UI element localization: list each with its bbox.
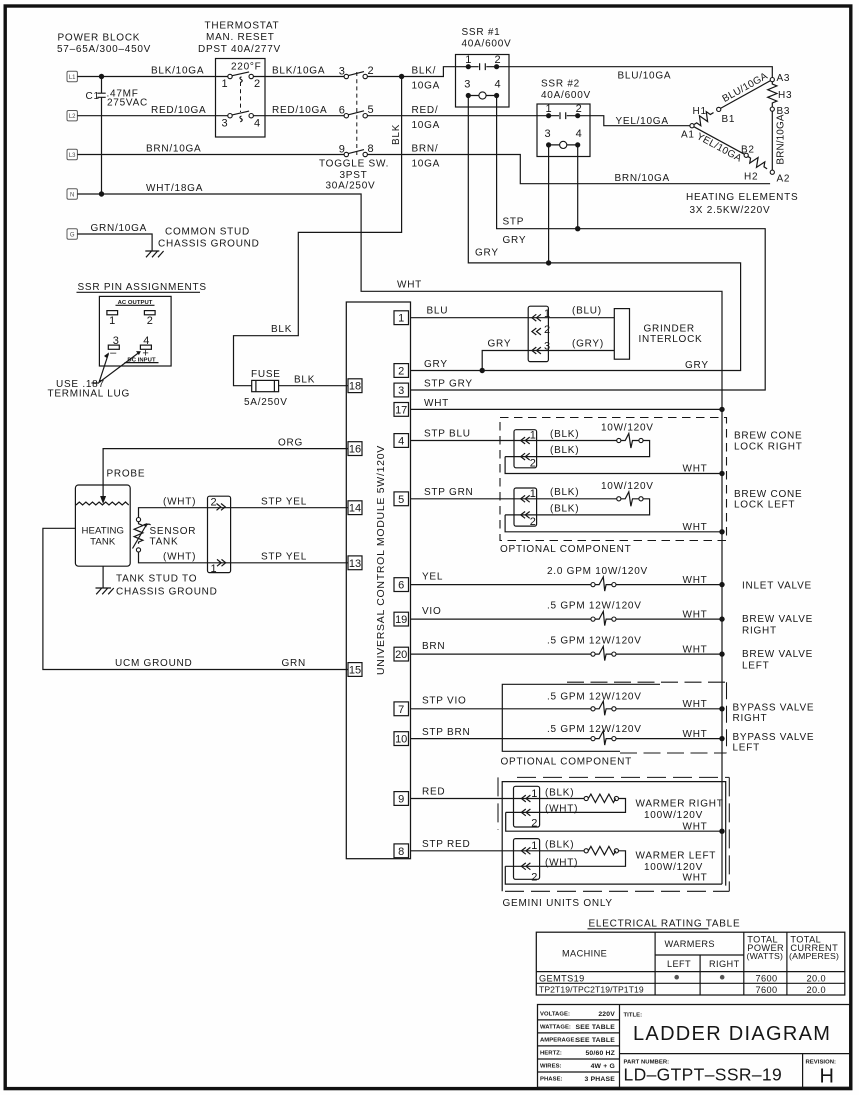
svg-text:HEATING ELEMENTS: HEATING ELEMENTS xyxy=(686,192,798,203)
svg-text:.5 GPM 12W/120V: .5 GPM 12W/120V xyxy=(547,601,642,612)
svg-text:WHT: WHT xyxy=(683,729,708,740)
junction dot brew right WHT xyxy=(719,471,724,476)
wire STP GRY net SSR1 pin4 to UCM-3 xyxy=(411,96,766,391)
node B3 xyxy=(770,107,774,111)
labels (BLK)(WHT) warmer right xyxy=(545,787,578,814)
bypass optional box solid part xyxy=(502,684,660,751)
warmer left resistor xyxy=(505,846,625,866)
labels (BLK)(WHT) warmer left xyxy=(545,840,578,869)
svg-text:GRY: GRY xyxy=(475,248,499,259)
SSR #1 pins 1-2 contact xyxy=(465,54,500,70)
node B1 xyxy=(717,107,721,111)
svg-text:6: 6 xyxy=(398,580,404,592)
svg-text:A1: A1 xyxy=(681,130,695,141)
resistor H1 A1-B1 xyxy=(691,109,716,129)
svg-text:B2: B2 xyxy=(741,145,755,156)
title block row HERTZ xyxy=(540,1050,615,1057)
wire WHT return brew right xyxy=(505,457,722,475)
UCM terminal 15 xyxy=(348,663,362,677)
brew cone left pin 2 xyxy=(521,512,536,528)
warmer right pin 1 xyxy=(521,788,537,802)
svg-text:REVISION:: REVISION: xyxy=(806,1059,837,1065)
svg-text:POWER BLOCK: POWER BLOCK xyxy=(58,33,141,44)
svg-text:10GA: 10GA xyxy=(412,159,441,170)
wire B1 to A3 with BLU/10GA label xyxy=(721,71,771,109)
table row TP2T19/TPC2T19/TP1T19 xyxy=(539,985,826,996)
wire (BLU) grinder pin1 to interlock xyxy=(572,306,602,317)
svg-text:TOGGLE SW.: TOGGLE SW. xyxy=(319,159,389,170)
svg-text:–: – xyxy=(110,347,117,359)
UCM terminal 13 xyxy=(348,556,362,570)
warmer right connector box xyxy=(514,786,540,827)
table header LEFT RIGHT xyxy=(667,959,740,969)
svg-text:BYPASS VALVE: BYPASS VALVE xyxy=(733,732,815,743)
svg-text:2: 2 xyxy=(576,103,582,115)
svg-text:10W/120V: 10W/120V xyxy=(601,423,654,434)
thermostat title xyxy=(198,20,281,55)
svg-text:2: 2 xyxy=(530,516,536,528)
sensor tank thermistor xyxy=(133,518,197,553)
grinder connector pin 3 xyxy=(532,341,550,354)
label GRINDER INTERLOCK xyxy=(639,324,703,346)
svg-text:WHT: WHT xyxy=(683,522,708,533)
svg-text:57–65A/300–450V: 57–65A/300–450V xyxy=(57,44,151,55)
svg-text:3: 3 xyxy=(398,385,404,397)
junction dot WHT bus top xyxy=(719,407,724,412)
wire UCM GROUND tank to UCM-15 xyxy=(43,528,348,669)
svg-text:ORG: ORG xyxy=(278,438,303,449)
svg-text:220°F: 220°F xyxy=(231,62,262,73)
svg-text:B1: B1 xyxy=(722,114,736,125)
svg-text:3: 3 xyxy=(464,79,470,91)
fuse F1 xyxy=(244,369,288,408)
arrow to spade 4 xyxy=(99,351,141,382)
svg-text:RIGHT: RIGHT xyxy=(742,625,777,636)
svg-text:PHASE:: PHASE: xyxy=(540,1077,563,1083)
svg-text:2.0 GPM 10W/120V: 2.0 GPM 10W/120V xyxy=(547,566,648,577)
svg-text:BLK: BLK xyxy=(294,375,315,386)
svg-text:220V: 220V xyxy=(598,1011,615,1018)
svg-text:275VAC: 275VAC xyxy=(107,98,148,109)
svg-text:2: 2 xyxy=(530,458,536,470)
svg-text:(BLK): (BLK) xyxy=(550,429,579,440)
svg-text:LOCK LEFT: LOCK LEFT xyxy=(734,500,795,511)
brew cone right connector box xyxy=(514,430,537,468)
spade pin 3 xyxy=(108,335,119,359)
wire RED L2 row xyxy=(77,105,546,116)
UCM terminal 4 xyxy=(394,434,409,448)
terminal L3 xyxy=(67,149,77,159)
wire GRY net SSR1 pin3 to UCM-2 xyxy=(411,96,741,371)
bypass valve right coil symbol xyxy=(591,701,616,715)
svg-text:2: 2 xyxy=(147,315,153,327)
junction dot warmer right WHT xyxy=(719,829,724,834)
toggle gang dashed link xyxy=(356,72,358,155)
wire VIO UCM-19 brew valve right row xyxy=(411,601,723,621)
svg-text:BRN/: BRN/ xyxy=(412,144,439,155)
UCM terminal 6 xyxy=(394,578,409,592)
wire A1 to B2 with YEL/10GA label xyxy=(694,127,744,165)
table header TOTAL CURRENT (AMPERES) xyxy=(789,935,839,961)
svg-text:CHASSIS GROUND: CHASSIS GROUND xyxy=(116,587,218,598)
UCM terminal 2 xyxy=(394,364,409,378)
label BREW CONE LOCK LEFT xyxy=(734,489,802,511)
wire BLK L1 row xyxy=(77,66,466,77)
sensor connector box xyxy=(208,496,231,572)
svg-text:STP RED: STP RED xyxy=(422,839,470,850)
wire WHT N row xyxy=(77,183,722,884)
svg-text:2: 2 xyxy=(544,324,550,336)
svg-text:1: 1 xyxy=(222,78,228,90)
svg-text:20: 20 xyxy=(395,649,407,661)
svg-text:STP VIO: STP VIO xyxy=(422,696,467,707)
terminal G xyxy=(67,229,77,239)
table header TOTAL POWER (WATTS) xyxy=(747,935,785,961)
SSR #1 box U1 xyxy=(456,55,510,108)
svg-text:SSR PIN ASSIGNMENTS: SSR PIN ASSIGNMENTS xyxy=(78,282,207,293)
thermostat gang dashed link xyxy=(240,82,242,112)
svg-text:WHT: WHT xyxy=(683,873,708,884)
svg-text:3 PHASE: 3 PHASE xyxy=(585,1076,616,1083)
svg-text:COMMON STUD: COMMON STUD xyxy=(165,227,250,238)
svg-text:2: 2 xyxy=(531,872,537,884)
svg-text:10W/120V: 10W/120V xyxy=(601,481,654,492)
UCM terminal 10 xyxy=(394,732,409,746)
svg-text:2: 2 xyxy=(495,54,501,66)
grinder connector box xyxy=(528,306,548,361)
svg-text:3PST: 3PST xyxy=(340,170,368,181)
heating tank xyxy=(75,485,130,566)
svg-text:TITLE:: TITLE: xyxy=(624,1013,643,1019)
junction dot brew valve left WHT xyxy=(719,651,724,656)
junction dot STP GRY SSR2 pin4 xyxy=(575,226,580,231)
svg-text:RED/10GA: RED/10GA xyxy=(272,105,327,116)
svg-text:PROBE: PROBE xyxy=(107,469,146,480)
SSR PIN ASSIGNMENTS heading xyxy=(77,282,207,293)
svg-text:C1: C1 xyxy=(86,91,100,102)
svg-text:H1: H1 xyxy=(693,106,707,117)
wire BRN UCM-20 brew valve left row xyxy=(411,636,723,656)
svg-text:RED/10GA: RED/10GA xyxy=(151,105,206,116)
wire YEL/10GA from SSR2 to A1 xyxy=(578,116,690,127)
svg-text:A2: A2 xyxy=(777,174,791,185)
svg-text:(WHT): (WHT) xyxy=(163,552,196,563)
grinder interlock box xyxy=(614,309,629,360)
title block row WATTAGE xyxy=(540,1024,615,1031)
warmer right resistor xyxy=(506,794,626,812)
title block row VOLTAGE xyxy=(540,1011,615,1018)
wire STP RED UCM-8 to warmer left xyxy=(411,839,585,851)
toggle switch label xyxy=(319,159,389,192)
SSR pin assignments box xyxy=(99,296,171,366)
UCM terminal 19 xyxy=(394,612,409,626)
sensor connector pin 1 chevrons xyxy=(211,559,226,575)
UCM terminal 16 xyxy=(348,442,362,456)
svg-text:STP YEL: STP YEL xyxy=(261,552,307,563)
svg-text:(BLK): (BLK) xyxy=(550,487,579,498)
labels RED/10GA stacked xyxy=(412,105,441,131)
svg-text:HERTZ:: HERTZ: xyxy=(540,1051,562,1057)
svg-text:MAN. RESET: MAN. RESET xyxy=(206,32,275,43)
sensor connector pin 2 chevrons xyxy=(211,497,226,511)
svg-text:INLET VALVE: INLET VALVE xyxy=(742,580,812,591)
toggle switch contact 3-2 xyxy=(339,65,374,79)
svg-text:UNIVERSAL CONTROL MODULE 5W: UNIVERSAL CONTROL MODULE 5W/120V xyxy=(375,445,387,675)
svg-text:B3: B3 xyxy=(777,106,791,117)
svg-text:L1: L1 xyxy=(69,75,76,81)
wire STP BRN UCM-10 bypass valve left row xyxy=(411,724,723,740)
svg-text:YEL/10GA: YEL/10GA xyxy=(616,116,669,127)
brew valve right coil symbol xyxy=(591,611,616,625)
label WARMER RIGHT 100W/120V xyxy=(636,798,724,821)
svg-text:BYPASS VALVE: BYPASS VALVE xyxy=(733,702,815,713)
svg-text:GRINDER: GRINDER xyxy=(644,324,695,335)
svg-text:BLU/10GA: BLU/10GA xyxy=(618,71,672,82)
svg-text:TANK STUD TO: TANK STUD TO xyxy=(116,574,197,585)
labels (BLK)(BLK) brew left xyxy=(550,487,579,514)
svg-text:MACHINE: MACHINE xyxy=(562,949,607,959)
svg-text:3: 3 xyxy=(545,128,551,140)
svg-text:BLK: BLK xyxy=(271,324,292,335)
svg-text:HEATING: HEATING xyxy=(81,526,124,537)
wire B3 to A2 (BRN/10GA vertical) xyxy=(772,111,786,170)
svg-text:3X 2.5KW/220V: 3X 2.5KW/220V xyxy=(690,205,771,216)
svg-text:40A/600V: 40A/600V xyxy=(462,39,512,50)
wire BLU UCM-1 to grinder connector xyxy=(411,306,615,318)
svg-text:1: 1 xyxy=(530,430,536,442)
svg-text:STP BLU: STP BLU xyxy=(424,429,471,440)
spade pin 4 xyxy=(140,335,151,360)
svg-text:WARMER RIGHT: WARMER RIGHT xyxy=(636,798,724,809)
svg-text:4: 4 xyxy=(495,79,501,91)
terminal L1 xyxy=(67,71,77,81)
wire STP GRY branch SSR2 pin4 xyxy=(577,145,579,229)
svg-text:1: 1 xyxy=(109,315,115,327)
svg-text:15: 15 xyxy=(349,665,361,677)
svg-text:1: 1 xyxy=(531,788,537,800)
label BYPASS VALVE LEFT xyxy=(733,732,815,754)
svg-text:VOLTAGE:: VOLTAGE: xyxy=(540,1012,570,1018)
svg-text:BLU: BLU xyxy=(427,306,449,317)
svg-text:(BLK): (BLK) xyxy=(550,445,579,456)
gemini units dashed box xyxy=(502,782,726,892)
junction dot inlet WHT xyxy=(719,582,724,587)
svg-text:19: 19 xyxy=(395,614,407,626)
label USE .187 TERMINAL LUG xyxy=(48,379,131,400)
terminal N xyxy=(67,189,77,199)
probe arrow into tank xyxy=(100,469,145,505)
brew cone left pin 1 xyxy=(521,488,536,502)
svg-text:BRN: BRN xyxy=(422,641,445,652)
svg-text:BRN/10GA: BRN/10GA xyxy=(146,144,201,155)
svg-text:WHT: WHT xyxy=(424,398,449,409)
heating elements: node A3 xyxy=(770,78,774,82)
svg-text:1: 1 xyxy=(531,840,537,852)
svg-text:1: 1 xyxy=(211,563,217,575)
svg-text:1: 1 xyxy=(465,54,471,66)
svg-text:WHT: WHT xyxy=(683,821,708,832)
svg-text:(BLK): (BLK) xyxy=(550,504,579,515)
UCM terminal 14 xyxy=(348,501,362,515)
warmer left pin 2 xyxy=(521,863,537,884)
svg-text:1: 1 xyxy=(398,313,404,325)
svg-text:LD–GTPT–SSR–19: LD–GTPT–SSR–19 xyxy=(624,1065,783,1085)
svg-text:YEL: YEL xyxy=(422,572,443,583)
svg-text:7600: 7600 xyxy=(756,973,778,983)
svg-text:20.0: 20.0 xyxy=(807,973,826,983)
svg-text:DPST 40A/277V: DPST 40A/277V xyxy=(198,44,281,55)
wire WHT UCM-17 to bus xyxy=(411,398,723,409)
wire BLK fuse to UCM-18 xyxy=(279,375,348,386)
spade pin 2 xyxy=(144,311,155,327)
toggle switch contact 9-8 xyxy=(339,143,374,157)
resistor H3 xyxy=(768,82,793,107)
svg-text:10GA: 10GA xyxy=(412,120,441,131)
node B2 xyxy=(744,153,748,157)
SSR #2 box U2 xyxy=(537,104,590,157)
svg-text:4W + G: 4W + G xyxy=(591,1063,615,1070)
svg-text:.5 GPM 12W/120V: .5 GPM 12W/120V xyxy=(547,724,642,735)
svg-text:TP2T19/TPC2T19/TP1T19: TP2T19/TPC2T19/TP1T19 xyxy=(539,985,644,995)
svg-text:4: 4 xyxy=(398,436,404,448)
thermostat contact 3-4 xyxy=(222,111,261,129)
wire STP YEL to UCM-14 xyxy=(261,497,307,508)
svg-text:(BLK): (BLK) xyxy=(545,787,574,798)
svg-text:.5 GPM 12W/120V: .5 GPM 12W/120V xyxy=(547,636,642,647)
node A2 xyxy=(770,170,774,174)
title block row AMPERAGE xyxy=(540,1037,615,1044)
wire GRY branch SSR2 pin3 xyxy=(548,145,550,263)
svg-text:SSR #2: SSR #2 xyxy=(541,79,580,90)
grinder connector pin 2 xyxy=(532,324,550,336)
svg-text:FUSE: FUSE xyxy=(251,369,281,380)
svg-text:4: 4 xyxy=(576,128,582,140)
svg-text:1: 1 xyxy=(546,103,552,115)
svg-text:STP GRN: STP GRN xyxy=(424,487,474,498)
svg-text:RIGHT: RIGHT xyxy=(709,959,740,969)
svg-text:LEFT: LEFT xyxy=(667,959,691,969)
optional component dashed box (brew cone locks) xyxy=(500,418,727,541)
brew cone right switch xyxy=(505,434,649,457)
svg-text:10: 10 xyxy=(395,734,407,746)
wire YEL UCM-6 inlet valve row xyxy=(411,566,723,586)
wire sensor bottom to connector pin 1 xyxy=(139,552,349,563)
bypass optional box dashed part xyxy=(567,682,727,753)
wire STP YEL to UCM-13 xyxy=(261,552,307,563)
wire BRN L3 row xyxy=(77,144,770,184)
wire STP GRN UCM-5 to brew cone left connector xyxy=(411,487,617,499)
svg-text:WIRES:: WIRES: xyxy=(540,1064,562,1070)
UCM terminal 9 xyxy=(394,792,409,806)
table row GEMTS19 xyxy=(539,973,826,983)
svg-text:GEMTS19: GEMTS19 xyxy=(539,973,585,983)
svg-text:16: 16 xyxy=(349,444,361,456)
svg-text:TERMINAL LUG: TERMINAL LUG xyxy=(48,389,131,400)
junction dot bypass left WHT xyxy=(719,736,724,741)
brew valve left coil symbol xyxy=(591,646,616,660)
svg-text:WATTAGE:: WATTAGE: xyxy=(540,1025,571,1031)
svg-text:AMPERAGE:: AMPERAGE: xyxy=(540,1038,576,1044)
wire ORG UCM-16 to probe xyxy=(103,438,348,498)
warmer left pin 1 xyxy=(521,840,537,854)
tank stud ground symbol xyxy=(96,588,114,594)
svg-text:ELECTRICAL RATING TABLE: ELECTRICAL RATING TABLE xyxy=(589,919,741,930)
svg-text:3: 3 xyxy=(222,118,228,130)
brew cone right pin 1 xyxy=(521,430,536,444)
inlet valve coil symbol xyxy=(591,577,616,591)
label BYPASS VALVE RIGHT xyxy=(733,702,815,724)
warmer left connector box xyxy=(514,839,540,880)
svg-text:50/60 HZ: 50/60 HZ xyxy=(585,1050,615,1057)
wire GRN G row xyxy=(77,223,152,251)
svg-text:20.0: 20.0 xyxy=(807,985,826,995)
svg-text:L3: L3 xyxy=(69,153,76,159)
electrical rating table grid xyxy=(536,932,845,995)
UCM box (universal control module) xyxy=(346,302,410,859)
label WARMER LEFT 100W/120V xyxy=(636,851,717,874)
svg-text:13: 13 xyxy=(349,558,361,570)
svg-text:BRN/10GA: BRN/10GA xyxy=(615,173,670,184)
label TANK STUD TO CHASSIS GROUND xyxy=(116,574,218,598)
brew cone left switch xyxy=(505,492,649,515)
svg-text:9: 9 xyxy=(339,143,345,155)
labels (BLK)(BLK) brew right xyxy=(550,429,579,456)
svg-text:8: 8 xyxy=(368,143,374,155)
svg-text:WARMERS: WARMERS xyxy=(665,939,715,949)
svg-text:17: 17 xyxy=(395,404,407,416)
svg-text:GRY: GRY xyxy=(488,338,512,349)
svg-text:SSR #1: SSR #1 xyxy=(462,27,501,38)
wire BLK net from toggle junction to fuse xyxy=(234,77,402,386)
svg-text:(WATTS): (WATTS) xyxy=(747,951,784,961)
svg-text:H2: H2 xyxy=(744,172,758,183)
svg-text:N: N xyxy=(70,192,74,198)
terminal L2 xyxy=(67,111,77,121)
svg-text:2: 2 xyxy=(368,65,374,77)
UCM terminal 17 xyxy=(394,403,409,417)
node A1 xyxy=(690,124,694,128)
svg-text:.5 GPM 12W/120V: .5 GPM 12W/120V xyxy=(547,691,642,702)
svg-text:LEFT: LEFT xyxy=(742,660,769,671)
svg-text:H3: H3 xyxy=(778,90,792,101)
svg-text:2: 2 xyxy=(254,78,260,90)
bypass valve left coil symbol xyxy=(591,731,616,745)
svg-text:(BLK): (BLK) xyxy=(545,840,574,851)
warmer right pin 2 xyxy=(521,809,537,830)
svg-text:BREW CONE: BREW CONE xyxy=(734,489,802,500)
svg-text:GRY: GRY xyxy=(503,235,527,246)
wire WHT return brew left xyxy=(505,515,722,533)
junction dot brew valve right WHT xyxy=(719,616,724,621)
svg-text:WHT: WHT xyxy=(683,699,708,710)
svg-text:30A/250V: 30A/250V xyxy=(326,181,376,192)
label COMMON STUD CHASSIS GROUND xyxy=(158,227,260,250)
svg-text:LADDER DIAGRAM: LADDER DIAGRAM xyxy=(633,1023,831,1045)
svg-text:2: 2 xyxy=(398,366,404,378)
svg-text:WHT: WHT xyxy=(683,644,708,655)
svg-text:H: H xyxy=(820,1066,834,1088)
svg-text:2: 2 xyxy=(531,818,537,830)
UCM terminal 18 xyxy=(348,379,362,393)
junction dot GRY SSR2 pin3 xyxy=(546,260,551,265)
svg-text:BLK/10GA: BLK/10GA xyxy=(151,66,204,77)
svg-text:(BLU): (BLU) xyxy=(572,306,602,317)
svg-text:1: 1 xyxy=(544,308,550,320)
chassis ground symbol xyxy=(145,251,163,257)
labels BLK/10GA stacked after toggle xyxy=(412,66,441,92)
svg-text:BLK/: BLK/ xyxy=(412,66,437,77)
label BREW VALVE LEFT xyxy=(742,649,813,672)
